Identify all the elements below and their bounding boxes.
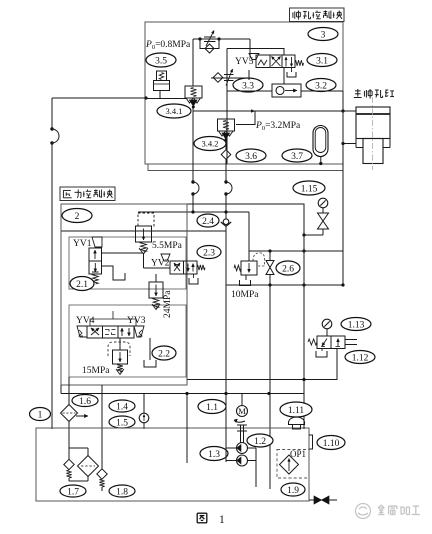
accumulator stem: [320, 156, 322, 164]
pilot wires above YV4 YV3: [90, 319, 136, 326]
solenoid valve YV5: [249, 54, 259, 60]
label ellipse 1.9: [281, 483, 305, 496]
solenoid valve YV1: [92, 237, 102, 247]
label ellipse 1.1: [198, 400, 226, 414]
wire globe valve to riser: [304, 234, 323, 236]
svg-text:2: 2: [75, 212, 80, 222]
left return line x=52 with hose: [51, 98, 53, 129]
svg-text:1.3: 1.3: [208, 450, 220, 460]
port tab 1.10: [309, 435, 313, 449]
wire YV1 to relief and tank: [102, 252, 144, 254]
label ellipse 3.6: [236, 149, 266, 162]
label ellipse 1.15: [293, 181, 325, 195]
label ellipse 1.5: [109, 416, 135, 428]
relief valve 10MPa: [241, 261, 257, 275]
svg-text:1.15: 1.15: [301, 184, 318, 194]
svg-text:1.2: 1.2: [254, 437, 266, 447]
inner box A around YV1 YV2: [69, 237, 186, 289]
svg-text:M: M: [238, 406, 246, 416]
svg-text:1.12: 1.12: [352, 353, 369, 363]
solenoid valve YV2: [161, 254, 170, 261]
svg-text:3.4.1: 3.4.1: [166, 106, 183, 116]
drain below 1.12: [321, 349, 323, 352]
riser x=270 down to tank: [269, 285, 271, 489]
label ellipse 1.11: [280, 402, 312, 417]
hydraulic pump 1 (1.2): [237, 443, 248, 454]
pump suction wires: [225, 394, 227, 463]
wire P-line y=111 to cylinder: [193, 110, 343, 112]
label ellipse 1.13: [341, 318, 371, 331]
svg-text:1.5: 1.5: [116, 418, 128, 428]
tank symbol in box A: [113, 273, 125, 280]
wire right riser x=343: [342, 91, 344, 285]
spring right of YV2: [197, 265, 205, 270]
svg-text:2.2: 2.2: [158, 349, 170, 359]
wire 1.12 drain to bus: [187, 349, 337, 380]
svg-text:3: 3: [321, 30, 326, 40]
wire bus y=204 to right riser: [61, 204, 304, 235]
label ellipse 2.3: [197, 246, 221, 259]
label ellipse 3.4.2: [194, 137, 226, 151]
filter OP1 diamond: [280, 455, 299, 474]
branch to relief 3.4.2: [236, 111, 255, 125]
hydraulic pump 2 (1.3): [237, 455, 248, 466]
reducing valve 3.4.1: [185, 86, 202, 98]
wire bus y=251 to cylinder riser: [249, 250, 343, 252]
svg-text:1.11: 1.11: [288, 406, 305, 416]
punch block title box: [290, 8, 345, 22]
main bottom bus y=393.5: [61, 393, 304, 395]
label ellipse 3.1: [307, 54, 337, 67]
label ellipse 2.6: [276, 261, 300, 275]
svg-text:3.3: 3.3: [242, 81, 254, 91]
label ellipse 3.3: [233, 78, 263, 92]
svg-text:OP1: OP1: [290, 449, 306, 459]
solenoid valve YV4 YV3 three position: [77, 326, 87, 337]
pressure block left edge to bus: [60, 385, 62, 394]
pilot dashed of relief 10MPa: [253, 253, 265, 266]
spring right of YV5: [295, 60, 304, 66]
svg-text:YV5: YV5: [235, 57, 254, 67]
svg-text:2.4: 2.4: [202, 217, 214, 227]
wire YV2 to 24MPa relief: [155, 274, 157, 282]
pilot line down from reducer circuit x=193: [192, 39, 194, 86]
flow arrow at filter 1.6: [76, 415, 88, 417]
label ellipse 1.10: [317, 436, 345, 450]
motor coupling: [234, 420, 245, 422]
wire bus y=212: [138, 211, 249, 213]
relief valve 5.5MPa: [136, 226, 152, 242]
tank symbol in box B: [144, 360, 156, 367]
label ellipse 2.2: [152, 346, 176, 360]
svg-text:1: 1: [219, 514, 225, 526]
riser x=249 from bus to relief 10MPa: [248, 212, 250, 261]
text main punch cylinder 主冲孔缸: [357, 89, 359, 97]
wire cylinder rod side: [343, 143, 356, 145]
svg-text:1.8: 1.8: [116, 487, 128, 497]
riser x=144 with thermometer 1.5: [143, 394, 145, 414]
label ellipse 3: [308, 28, 338, 41]
drain below YV5: [287, 72, 296, 77]
punch block title text 冲孔控制块: [292, 12, 294, 18]
pilot valve 2.2 rounded box: [108, 342, 130, 356]
label ellipse 3.7: [282, 149, 312, 162]
wire relief to YV2: [143, 253, 145, 268]
wire inlet left y=98: [52, 97, 145, 99]
relief valve 3.4.2: [218, 119, 235, 131]
punch control block outline (chong-kong kong-zhi-kuai): [145, 22, 343, 164]
filter OP1 dashed box: [277, 450, 309, 479]
svg-text:5.5MPa: 5.5MPa: [152, 241, 183, 251]
riser x=304 to tank: [303, 380, 305, 429]
wire to pressure switch and valve 3.4.1: [145, 98, 186, 100]
pressure gauge 1.13: [322, 319, 332, 329]
label ellipse 1.7: [60, 485, 86, 497]
pilot dashed box above relief 5.5MPa: [138, 213, 154, 226]
wire x=227 vertical through punch block: [226, 49, 228, 165]
drain below YV2: [193, 274, 195, 278]
double line below punch block: [148, 164, 343, 171]
svg-text:1.7: 1.7: [67, 487, 79, 497]
label ellipse 1.12: [345, 351, 375, 364]
pump outlet wires into tank: [248, 447, 257, 449]
label ellipse 1.2: [247, 434, 273, 447]
oil tank outline: [36, 428, 309, 501]
inner box B around YV4 YV3: [69, 305, 186, 377]
svg-text:10MPa: 10MPa: [231, 290, 259, 300]
label ellipse 1.4: [109, 400, 135, 412]
svg-text:3.7: 3.7: [291, 152, 303, 162]
shutoff globe valve below gauge: [318, 213, 329, 221]
spring below relief 5.5MPa: [141, 242, 147, 252]
label ellipse 3.5: [146, 53, 176, 67]
label ellipse 2: [62, 209, 92, 223]
electric motor M: [241, 394, 243, 406]
svg-text:1.6: 1.6: [79, 397, 91, 407]
svg-text:1.1: 1.1: [206, 403, 218, 413]
relief valve 24MPa: [149, 282, 163, 298]
svg-text:1.9: 1.9: [287, 486, 299, 496]
thermometer circle 1.5: [139, 413, 149, 423]
variable throttle with bypass check near P0=0.8MPa: [193, 38, 250, 40]
solenoid relief valve 1.12: [317, 336, 345, 349]
watermark text 金属加工: [378, 505, 381, 508]
pressure gauge 1.15: [318, 198, 328, 208]
label ellipse 3.2: [306, 79, 336, 92]
watermark logo: [356, 504, 371, 519]
pressure block title text 压力控制块: [63, 189, 70, 191]
svg-text:3.6: 3.6: [245, 152, 257, 162]
inner wire for YV5 group top: [227, 49, 284, 56]
wire YV4 down to 15MPa relief: [119, 338, 121, 350]
svg-text:2.3: 2.3: [203, 248, 215, 258]
svg-text:1.10: 1.10: [323, 439, 340, 449]
pressure control block outline: [61, 204, 187, 385]
throttle valve 2.6: [269, 251, 271, 261]
accumulator 3.7: [313, 126, 328, 157]
junction dot at block inlet: [144, 96, 147, 99]
wire bus y=285 to cylinder riser: [226, 284, 343, 286]
return filter 1.6: [68, 377, 70, 405]
wire valve 3.4.2 to check diamond: [225, 140, 227, 150]
svg-text:3.2: 3.2: [315, 81, 327, 91]
wire check valve to cylinder line: [301, 90, 343, 92]
label ellipse 1: [30, 408, 51, 421]
relief valve 15MPa: [113, 350, 128, 364]
svg-text:2.1: 2.1: [76, 280, 88, 290]
svg-text:3.1: 3.1: [316, 56, 328, 66]
label ellipse 1.3: [200, 447, 228, 461]
tank breather 1.11: [289, 417, 305, 425]
wire y=231 stub: [61, 230, 226, 232]
svg-text:3.4.2: 3.4.2: [202, 139, 219, 149]
main punch cylinder: [356, 107, 390, 139]
svg-text:YV4: YV4: [76, 316, 95, 326]
suction strainer 1.7 with bypass check: [69, 447, 88, 449]
riser block bottom x=102: [101, 385, 103, 429]
riser x=304 middle: [303, 235, 305, 380]
check diamond below 3.4.2: [221, 150, 231, 160]
riser x=226 with hose: [225, 164, 227, 182]
wire cylinder cap side: [343, 110, 356, 112]
wire from throttle to valve YV5 x=250: [249, 39, 251, 57]
caption 图 1: [197, 512, 207, 514]
ball check valve 2.4: [225, 212, 227, 219]
riser x=193 with hose: [192, 107, 194, 182]
label ellipse 3.4.1: [157, 104, 191, 118]
pressure block title box: [60, 187, 115, 201]
wire into check valve: [227, 90, 272, 92]
label ellipse 2.1: [70, 277, 94, 291]
svg-text:1: 1: [38, 410, 43, 420]
svg-text:1.13: 1.13: [348, 320, 365, 330]
spring symbols at YV4 YV3 ends: [79, 330, 83, 336]
throttle with check diamond in YV5 circuit: [211, 77, 249, 79]
svg-text:2.6: 2.6: [282, 264, 294, 274]
cylinder centerline: [372, 97, 374, 170]
spring below YV1: [93, 274, 99, 284]
pressure switch 3.5: [157, 71, 167, 81]
svg-text:24MPa: 24MPa: [163, 290, 173, 318]
label ellipse 1.6: [72, 395, 98, 407]
check valve 1.8: [101, 429, 103, 469]
svg-text:YV2: YV2: [151, 259, 170, 269]
pilot operated check valve 3.2: [272, 84, 301, 97]
label ellipse 1.8: [109, 485, 135, 497]
return pipe x=187 into tank: [186, 394, 188, 464]
drain below relief 10MPa: [245, 275, 247, 280]
svg-text:15MPa: 15MPa: [82, 366, 110, 376]
svg-text:1.4: 1.4: [116, 402, 128, 412]
label ellipse 2.4: [197, 214, 219, 227]
drain shutoff valve bottom right: [309, 499, 314, 501]
svg-text:3.5: 3.5: [155, 56, 167, 66]
